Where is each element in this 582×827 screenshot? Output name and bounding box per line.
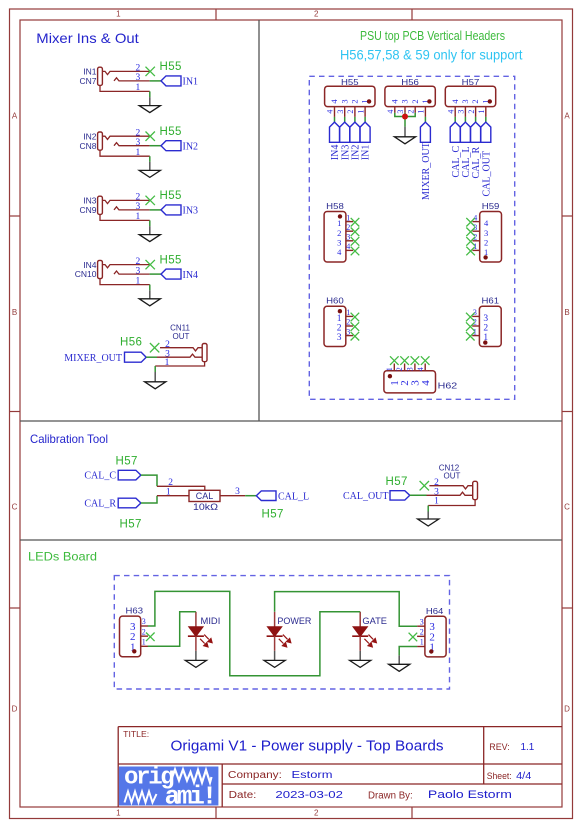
- wire: [485, 117, 487, 122]
- pin 3 of H64: [417, 617, 435, 633]
- ground: [139, 290, 160, 306]
- pin 2 of H55: [346, 99, 359, 117]
- svg-text:1: 1: [420, 638, 424, 647]
- svg-text:H57: H57: [116, 456, 138, 468]
- svg-text:2: 2: [467, 110, 476, 114]
- svg-text:2: 2: [395, 367, 404, 371]
- svg-text:A: A: [564, 112, 570, 121]
- pin 1 marker dot H55: [367, 99, 371, 103]
- svg-text:3: 3: [136, 138, 141, 148]
- svg-text:B: B: [564, 308, 569, 317]
- svg-text:MIXER_OUT: MIXER_OUT: [64, 353, 122, 364]
- pin 2 of CN8: [102, 128, 149, 139]
- svg-text:IN3: IN3: [183, 206, 199, 217]
- no-connect X H61 pin 3: [466, 313, 475, 322]
- svg-text:4: 4: [484, 218, 489, 228]
- pin 1 of CN7: [100, 83, 150, 93]
- wire: [334, 117, 336, 122]
- svg-text:Drawn By:: Drawn By:: [368, 791, 413, 802]
- no-connect X H64 pin 2: [409, 633, 418, 642]
- no-connect X H61 pin 2: [466, 322, 475, 331]
- svg-text:H59: H59: [482, 201, 500, 211]
- connector CN7 audio jack: [79, 67, 102, 86]
- pin 2 of CAL potentiometer: [157, 478, 205, 490]
- svg-text:1: 1: [136, 276, 141, 286]
- svg-text:2: 2: [337, 324, 342, 334]
- svg-text:C: C: [12, 503, 18, 512]
- svg-text:3: 3: [336, 110, 345, 114]
- wire H64 pin1 to ground: [399, 647, 417, 656]
- svg-text:H58: H58: [326, 201, 344, 211]
- svg-text:2: 2: [410, 99, 420, 103]
- svg-text:4: 4: [337, 247, 342, 257]
- svg-text:IN1: IN1: [183, 77, 199, 88]
- pin 1 marker dot H62: [388, 374, 392, 378]
- svg-text:3: 3: [337, 333, 342, 343]
- connector H63 header: [120, 606, 144, 657]
- pin 3 of H57: [457, 99, 470, 117]
- no-connect X H58 pin 1: [351, 218, 360, 227]
- svg-text:1: 1: [473, 242, 477, 251]
- ground: [394, 127, 415, 144]
- hierarchical label IN1: [360, 122, 372, 160]
- pin 4 of H58: [337, 242, 353, 257]
- no-connect X H62 pin 3: [411, 356, 420, 365]
- svg-text:3: 3: [473, 223, 477, 232]
- svg-text:4: 4: [420, 380, 432, 386]
- svg-text:1: 1: [434, 496, 439, 506]
- svg-text:H60: H60: [326, 296, 344, 306]
- svg-text:2023-03-02: 2023-03-02: [275, 789, 343, 801]
- svg-text:H57: H57: [262, 509, 284, 521]
- no-connect X H59 pin 2: [466, 237, 475, 246]
- svg-text:H55: H55: [160, 126, 182, 138]
- pin 1 marker dot H63: [132, 649, 136, 653]
- pin 4 of H57: [446, 99, 459, 117]
- connector H64 header: [425, 606, 446, 657]
- no-connect X H58 pin 3: [351, 237, 360, 246]
- svg-text:CN7: CN7: [79, 76, 96, 86]
- svg-text:3: 3: [406, 367, 415, 371]
- pin 2 of H64: [417, 628, 435, 644]
- no-connect X H59 pin 4: [466, 218, 475, 227]
- svg-text:GATE: GATE: [362, 616, 387, 626]
- svg-text:H57: H57: [120, 519, 142, 531]
- svg-text:3: 3: [484, 228, 488, 238]
- ground: [185, 651, 206, 668]
- svg-text:2: 2: [483, 324, 488, 334]
- LED MIDI: [188, 612, 220, 651]
- svg-text:2: 2: [346, 318, 350, 327]
- ground: [139, 226, 160, 242]
- svg-text:1: 1: [477, 110, 486, 114]
- svg-text:10kΩ: 10kΩ: [193, 502, 218, 512]
- svg-text:4: 4: [326, 110, 335, 114]
- svg-text:3: 3: [346, 327, 350, 336]
- svg-text:CAL_R: CAL_R: [84, 499, 116, 510]
- no-connect X CN9 pin 2: [146, 196, 155, 205]
- svg-text:1: 1: [165, 358, 170, 368]
- hierarchical label CAL_R: [84, 498, 141, 509]
- svg-text:1.1: 1.1: [521, 741, 535, 753]
- hierarchical label MIXER_OUT: [64, 352, 146, 364]
- pin 3 of H59: [473, 223, 489, 238]
- svg-text:3: 3: [136, 73, 141, 83]
- wire: [149, 91, 151, 97]
- pin 3 of CN9: [114, 202, 150, 212]
- pin 3 of CAL potentiometer: [220, 487, 245, 497]
- pin 2 of CN12: [429, 478, 472, 489]
- svg-text:1: 1: [116, 808, 121, 817]
- pin 1 of H59: [473, 242, 489, 257]
- pin 3 of CN8: [114, 138, 150, 148]
- pin 3 of CN11: [157, 349, 202, 359]
- wire: [245, 495, 256, 497]
- svg-text:CAL_OUT: CAL_OUT: [481, 151, 492, 197]
- wire: [146, 356, 157, 358]
- svg-text:4: 4: [386, 110, 395, 114]
- svg-text:2: 2: [484, 237, 488, 247]
- wire CAL_C to RV pin 2: [141, 475, 157, 486]
- pin 1 of H57: [477, 99, 490, 117]
- pin 1 marker dot H56: [427, 99, 431, 103]
- svg-text:2: 2: [473, 318, 477, 327]
- no-connect X CN11 pin 2: [150, 343, 159, 352]
- pin 1 of H60: [337, 308, 353, 324]
- wire: [344, 117, 346, 122]
- pin 2 of H57: [467, 99, 480, 117]
- svg-text:LEDs Board: LEDs Board: [28, 550, 97, 564]
- svg-text:TITLE:: TITLE:: [123, 730, 149, 739]
- svg-text:2: 2: [420, 628, 424, 637]
- ground: [145, 372, 166, 389]
- svg-text:4/4: 4/4: [516, 771, 532, 782]
- svg-text:1: 1: [136, 212, 141, 222]
- pin 2 of CN7: [102, 64, 149, 75]
- svg-text:4: 4: [416, 367, 425, 371]
- logo origami: [119, 765, 218, 812]
- wire: [410, 494, 427, 496]
- pin 1 of H63: [130, 638, 148, 654]
- pin 1 of CN8: [100, 148, 150, 158]
- wire: [475, 117, 477, 122]
- svg-text:1: 1: [385, 367, 394, 371]
- no-connect X H60 pin 1: [351, 313, 360, 322]
- svg-text:1: 1: [337, 314, 342, 324]
- hierarchical label IN2: [161, 141, 198, 153]
- svg-text:CAL_C: CAL_C: [84, 471, 116, 482]
- wire: [149, 220, 151, 226]
- svg-text:B: B: [12, 308, 17, 317]
- pin 1 of CN10: [100, 276, 150, 286]
- wire H63 pin3 to GATE anode: [148, 591, 360, 675]
- svg-text:H62: H62: [438, 381, 458, 391]
- connector H62 header: [384, 371, 458, 393]
- wire: [364, 117, 366, 122]
- connector H57 header: [445, 77, 495, 107]
- no-connect X H61 pin 1: [466, 332, 475, 341]
- ground: [350, 651, 371, 668]
- wire: [464, 117, 466, 122]
- no-connect X H58 pin 2: [351, 228, 360, 237]
- svg-text:1: 1: [337, 218, 341, 228]
- svg-text:IN1: IN1: [361, 145, 372, 161]
- svg-text:1: 1: [346, 308, 350, 317]
- pin 1 of H56: [417, 99, 430, 117]
- no-connect X CN12 pin 2: [420, 481, 429, 490]
- title block Date and Drawn By: [229, 789, 512, 802]
- LED GATE: [352, 612, 387, 651]
- svg-text:1: 1: [136, 83, 141, 93]
- svg-text:C: C: [564, 503, 570, 512]
- hierarchical label CAL_C: [84, 470, 141, 481]
- pin 3 of CN12: [427, 487, 473, 497]
- section box divider Calibration top: [20, 420, 562, 422]
- pin 2 of H56: [406, 99, 419, 113]
- wire: [427, 506, 429, 512]
- pin 2 of H59: [473, 233, 489, 248]
- wire: [149, 285, 151, 291]
- svg-text:REV:: REV:: [489, 742, 509, 752]
- pin 1 marker dot H61: [483, 340, 487, 344]
- no-connect X H63 pin 2: [146, 633, 155, 642]
- svg-text:OUT: OUT: [173, 332, 190, 341]
- pin 1 of H61: [472, 327, 488, 343]
- pin 1 of H64: [417, 638, 435, 654]
- section box divider Mixer/PSU: [258, 20, 260, 421]
- pin 3 of H55: [336, 99, 349, 117]
- pin 3 of H56: [396, 99, 409, 113]
- junction: [402, 114, 408, 120]
- connector H59 header: [480, 201, 502, 262]
- pin 3 of CN7: [114, 73, 150, 83]
- svg-text:1: 1: [356, 110, 365, 114]
- svg-text:2: 2: [350, 99, 360, 103]
- svg-text:2: 2: [136, 64, 141, 74]
- pin 2 of H62: [395, 364, 411, 386]
- wire POWER anode to H64 pin3: [275, 592, 418, 627]
- pin 4 of H62: [416, 364, 432, 386]
- svg-text:1: 1: [142, 638, 146, 647]
- pin 4 of H56: [386, 99, 399, 114]
- dashed outline box LEDs board: [114, 576, 449, 689]
- dashed outline box PSU headers: [309, 76, 514, 399]
- svg-text:H63: H63: [126, 606, 144, 616]
- svg-text:1: 1: [473, 327, 477, 336]
- svg-text:Sheet:: Sheet:: [487, 771, 512, 782]
- svg-text:2: 2: [346, 110, 355, 114]
- svg-text:Company:: Company:: [228, 770, 282, 781]
- pin 1 marker dot H58: [338, 214, 342, 218]
- pin 3 of H62: [406, 364, 422, 386]
- hierarchical label IN4: [330, 122, 342, 160]
- svg-text:A: A: [12, 112, 18, 121]
- svg-text:Mixer Ins & Out: Mixer Ins & Out: [36, 30, 139, 46]
- svg-text:1: 1: [136, 148, 141, 158]
- svg-text:POWER: POWER: [277, 616, 311, 626]
- wire: [150, 273, 161, 275]
- hierarchical label IN3: [340, 122, 352, 160]
- pin 4 of H59: [473, 213, 489, 228]
- title block frame: [118, 727, 562, 807]
- pin 1 of CAL potentiometer: [157, 487, 189, 497]
- svg-text:3: 3: [400, 99, 410, 103]
- ground: [418, 512, 439, 527]
- pin 3 of H63: [130, 617, 148, 633]
- no-connect X H62 pin 1: [390, 356, 399, 365]
- svg-text:D: D: [12, 705, 18, 714]
- no-connect X CN8 pin 2: [146, 132, 155, 141]
- svg-text:ami!: ami!: [165, 782, 215, 812]
- pin 2 of H60: [337, 318, 353, 334]
- title block TITLE: [123, 730, 443, 755]
- svg-text:IN4: IN4: [183, 270, 199, 281]
- title block REV 1.1: [489, 741, 534, 753]
- pin 2 of CN10: [102, 257, 149, 268]
- connector H55 header: [325, 77, 375, 107]
- svg-text:2: 2: [337, 228, 341, 238]
- svg-text:2: 2: [136, 257, 141, 267]
- connector CN10 audio jack: [75, 260, 103, 279]
- svg-text:2: 2: [470, 99, 480, 103]
- no-connect X CN10 pin 2: [146, 260, 155, 269]
- wire CAL_R to RV pin 1: [141, 496, 157, 503]
- pin 1 of CN9: [100, 212, 150, 222]
- hierarchical label IN3: [161, 205, 198, 217]
- hierarchical label IN1: [161, 76, 198, 88]
- no-connect X H59 pin 3: [466, 228, 475, 237]
- svg-text:OUT: OUT: [444, 472, 461, 481]
- pin 2 of H63: [130, 627, 148, 643]
- svg-text:H61: H61: [482, 296, 500, 306]
- wire: [149, 156, 151, 162]
- svg-text:H57: H57: [386, 476, 408, 488]
- svg-text:1: 1: [346, 213, 350, 222]
- connector H56 header: [385, 77, 435, 107]
- no-connect X H60 pin 2: [351, 322, 360, 331]
- svg-text:Paolo Estorm: Paolo Estorm: [428, 789, 512, 801]
- pin 1 marker dot H59: [483, 255, 487, 259]
- pin 3 of H61: [472, 308, 488, 324]
- pin 4 of H55: [326, 99, 339, 117]
- no-connect X CN7 pin 2: [146, 67, 155, 76]
- svg-text:H56: H56: [120, 337, 142, 349]
- svg-text:1: 1: [116, 10, 121, 19]
- pin 1 of CN12: [428, 496, 475, 506]
- wire: [150, 80, 161, 82]
- svg-text:3: 3: [457, 110, 466, 114]
- connector CN12 audio jack: [439, 464, 478, 500]
- pin 1 of H58: [337, 213, 353, 228]
- svg-text:3: 3: [136, 202, 141, 212]
- wire pins 4-3-2 of H56 to ground: [395, 113, 415, 127]
- svg-text:CAL_OUT: CAL_OUT: [343, 491, 389, 502]
- ground: [139, 97, 160, 113]
- svg-text:MIXER_OUT: MIXER_OUT: [421, 142, 432, 200]
- ground: [389, 655, 410, 671]
- svg-text:CN10: CN10: [75, 269, 97, 279]
- svg-text:3: 3: [337, 237, 341, 247]
- svg-text:2: 2: [142, 627, 146, 636]
- svg-text:3: 3: [339, 99, 349, 103]
- hierarchical label IN2: [350, 122, 362, 160]
- svg-text:3: 3: [396, 110, 405, 114]
- pin 1 marker dot H60: [338, 309, 342, 313]
- no-connect X H62 pin 2: [400, 356, 409, 365]
- wire H63 pin1 to MIDI anode: [148, 612, 196, 647]
- pin 3 of H60: [337, 327, 353, 343]
- no-connect X H59 pin 1: [466, 247, 475, 256]
- no-connect X H60 pin 3: [351, 332, 360, 341]
- connector CN9 audio jack: [79, 196, 102, 215]
- potentiometer CAL 10k: [189, 490, 220, 512]
- svg-text:3: 3: [136, 266, 141, 276]
- svg-text:2: 2: [136, 193, 141, 203]
- pin 1 of H62: [385, 364, 401, 386]
- ground: [139, 162, 160, 178]
- svg-text:H55: H55: [160, 254, 182, 266]
- svg-text:1: 1: [417, 110, 426, 114]
- svg-text:3: 3: [473, 308, 477, 317]
- wire: [150, 209, 161, 211]
- no-connect X H62 pin 4: [421, 356, 430, 365]
- svg-text:1: 1: [166, 487, 171, 497]
- LED POWER: [267, 612, 312, 651]
- connector H60 header: [324, 296, 346, 347]
- svg-text:Calibration Tool: Calibration Tool: [30, 432, 108, 446]
- svg-text:3: 3: [420, 617, 424, 626]
- svg-text:3: 3: [483, 314, 488, 324]
- hierarchical label MIXER_OUT: [420, 122, 432, 200]
- hierarchical label IN4: [161, 269, 198, 281]
- pin 1 of H55: [356, 99, 369, 117]
- svg-text:H64: H64: [426, 606, 444, 616]
- title block Sheet: [487, 771, 532, 782]
- svg-text:CN9: CN9: [79, 205, 96, 215]
- wire: [424, 117, 426, 122]
- pin 1 marker dot H57: [488, 99, 492, 103]
- connector H61 header: [479, 296, 501, 347]
- svg-text:CAL_L: CAL_L: [278, 491, 309, 502]
- pin 2 of CN11: [160, 340, 202, 351]
- hierarchical label CAL_C: [450, 122, 462, 177]
- wire: [354, 117, 356, 122]
- pin 2 of H61: [472, 318, 488, 334]
- ground: [264, 651, 285, 668]
- hierarchical label CAL_OUT: [481, 122, 493, 196]
- svg-text:3: 3: [142, 617, 146, 626]
- svg-text:2: 2: [314, 10, 319, 19]
- wire: [150, 145, 161, 147]
- pin 3 of H58: [337, 233, 353, 248]
- pin 2 of H58: [337, 223, 353, 238]
- pin 2 of CN9: [102, 193, 149, 204]
- svg-text:PSU top PCB Vertical Headers: PSU top PCB Vertical Headers: [360, 29, 505, 43]
- svg-text:H55: H55: [160, 61, 182, 73]
- svg-text:3: 3: [460, 99, 470, 103]
- svg-text:Origami V1 - Power supply - To: Origami V1 - Power supply - Top Boards: [171, 738, 444, 755]
- wire: [154, 366, 156, 372]
- wire: [454, 117, 456, 122]
- svg-text:Estorm: Estorm: [292, 769, 333, 781]
- svg-text:2: 2: [473, 233, 477, 242]
- hierarchical label CAL_L: [460, 122, 472, 177]
- connector CN11 audio jack: [170, 324, 207, 362]
- hierarchical label CAL_OUT: [343, 491, 410, 502]
- title block Company: [228, 769, 333, 781]
- svg-text:2: 2: [346, 223, 350, 232]
- connector H58 header: [324, 201, 346, 262]
